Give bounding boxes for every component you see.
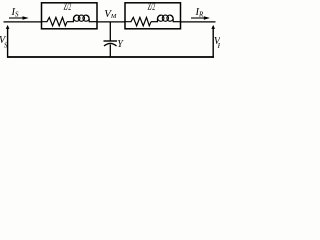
wire: bottom rail bbox=[7, 56, 214, 58]
inductor (right box) bbox=[157, 15, 173, 22]
resistor (right box) bbox=[125, 17, 151, 25]
wire: between boxes bbox=[97, 21, 125, 23]
wire: shunt branch upper bbox=[109, 22, 111, 41]
resistor (left box) bbox=[42, 17, 68, 25]
wire: left vertical (V_S) bbox=[7, 28, 9, 58]
wire: shunt branch lower bbox=[109, 45, 111, 57]
svg-text:Z/2: Z/2 bbox=[148, 2, 156, 13]
wire: inductor to box edge (right) bbox=[173, 21, 181, 23]
arrow: source current I_S bbox=[9, 17, 24, 19]
wire: inductor to box edge (left) bbox=[89, 21, 97, 23]
capacitor Y: flat top plate bbox=[104, 40, 118, 42]
svg-text:S: S bbox=[4, 41, 8, 49]
wire: resistor to inductor (left box) bbox=[67, 21, 74, 23]
box: right Z/2 impedance bbox=[125, 3, 181, 29]
wire: top-left lead into left box bbox=[4, 21, 42, 23]
arrow: receiving current I_R bbox=[191, 17, 205, 19]
wire: top-right lead bbox=[181, 21, 216, 23]
capacitor Y: curved bottom plate bbox=[104, 43, 117, 46]
wire: right vertical (V_R) bbox=[212, 28, 214, 58]
svg-text:R: R bbox=[217, 42, 220, 50]
inductor (left box) bbox=[73, 15, 89, 22]
svg-text:Z/2: Z/2 bbox=[64, 2, 72, 13]
arrow: sending voltage V_S (up arrowhead) bbox=[6, 25, 10, 29]
arrow: receiving voltage V_R (up arrowhead) bbox=[211, 25, 215, 29]
box: left Z/2 impedance bbox=[42, 3, 98, 29]
background bbox=[0, 0, 220, 63]
wire: resistor to inductor (right box) bbox=[151, 21, 158, 23]
